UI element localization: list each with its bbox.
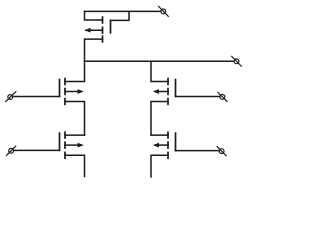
- wire: M0 gate lead up to top rail: [111, 11, 130, 20]
- port P3 (right, M3 gate input): [218, 93, 227, 102]
- transistor M3 drain leg + wire up to mid rail: [151, 61, 168, 81]
- transistor M4 source leg + stub down: [151, 155, 168, 177]
- transistor M2 drain leg: [65, 134, 85, 136]
- transistor M2 gate bar: [59, 133, 61, 150]
- transistor M2 channel segment 1: [64, 132, 66, 138]
- transistor M0 channel segment 1: [102, 17, 104, 23]
- transistor M4 gate bar: [175, 133, 177, 151]
- transistor M2 channel segment 3: [64, 152, 66, 158]
- port P4 (right, M4 gate input): [217, 147, 226, 156]
- transistor M0 gate bar: [110, 20, 112, 32]
- transistor M1 channel segment 2: [64, 89, 66, 95]
- transistor M2 source leg + stub down: [65, 155, 85, 176]
- port P1 (top right): [159, 6, 169, 16]
- transistor M2 channel segment 2: [64, 142, 66, 148]
- transistor M0 channel segment 2: [102, 27, 104, 33]
- transistor M3 gate bar: [175, 80, 177, 97]
- transistor M0 source leg + wire down to mid rail: [85, 39, 103, 61]
- transistor M4 bulk leg with arrow (points left): [153, 143, 168, 148]
- transistor M4 channel segment 2: [167, 142, 169, 148]
- transistor M0 bulk leg with arrow (points left): [84, 28, 102, 33]
- transistor M2 bulk leg with arrow (points right): [65, 143, 84, 148]
- wire: M3 gate lead to port P3: [176, 96, 220, 98]
- transistor M3 channel segment 1: [167, 79, 169, 85]
- transistor M3 channel segment 3: [167, 99, 169, 105]
- transistor M0: drain wire + drain leg: [85, 11, 103, 20]
- port P5 (left, M1 gate input): [6, 92, 16, 102]
- transistor M1 bulk leg with arrow (points right): [65, 89, 84, 94]
- transistor M3 channel segment 2: [167, 89, 169, 95]
- wire: M4 gate lead to port P4: [176, 150, 219, 152]
- transistor M4 drain leg: [151, 134, 168, 136]
- transistor M4 channel segment 3: [167, 152, 169, 158]
- wire: M1 gate lead: [13, 96, 59, 98]
- port P2 (mid right): [232, 56, 242, 66]
- transistor M1 drain leg + wire up to mid rail: [65, 61, 85, 81]
- transistor M3 source leg + wire down to M4 drain: [151, 102, 168, 136]
- wire: M2 gate lead: [14, 149, 60, 151]
- port P6 (left, M2 gate input): [7, 146, 16, 155]
- transistor M1 channel segment 3: [64, 99, 66, 105]
- transistor M1 gate bar: [59, 80, 61, 97]
- transistor M4 channel segment 1: [167, 132, 169, 138]
- wire: top rail from M0 drain to port P1: [85, 10, 161, 12]
- transistor M3 bulk leg with arrow (points left): [153, 89, 168, 94]
- transistor M1 source leg + wire down to M2 drain: [65, 102, 85, 136]
- wire: mid rail to port P2: [85, 60, 234, 62]
- transistor M1 channel segment 1: [64, 79, 66, 85]
- transistor M0 channel segment 3: [102, 36, 104, 42]
